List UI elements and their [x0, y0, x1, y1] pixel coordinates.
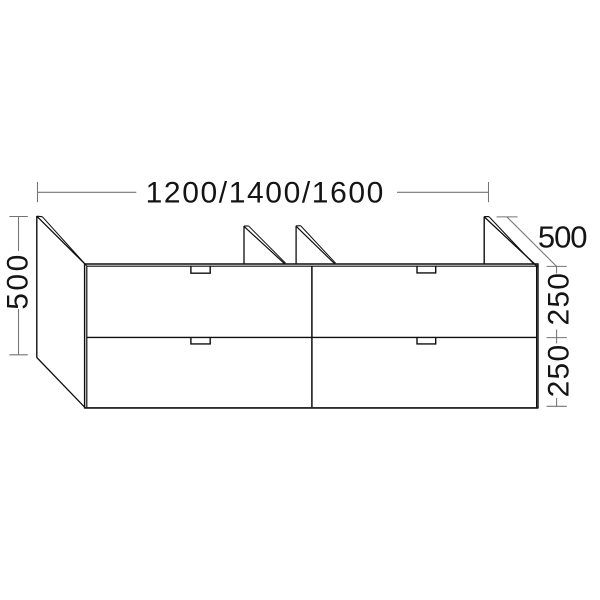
dimension width: left tick: [37, 182, 39, 202]
handle notch drawer bottom-left: [191, 338, 210, 344]
support bracket 1 vertical edge: [243, 226, 245, 264]
support bracket 1 hypotenuse inner: [249, 226, 286, 263]
dimension right 250+250: line segment 2: [556, 330, 558, 344]
svg-text:500: 500: [538, 219, 587, 254]
dimension width: right tick: [488, 182, 490, 202]
svg-text:500: 500: [2, 252, 35, 310]
dimension depth: bottom tick: [547, 265, 567, 267]
drawer column divider: [311, 266, 313, 407]
dimension right 250+250: middle tick: [547, 337, 567, 339]
dimension height left: line upper segment: [18, 217, 20, 251]
dimension right 250+250: bottom tick: [547, 405, 567, 407]
support bracket 2 vertical edge: [295, 226, 297, 264]
dimension height left: line lower segment: [18, 309, 20, 355]
right side panel top edge: [484, 216, 489, 218]
dimension width: line left segment: [38, 191, 137, 193]
handle notch drawer top-left: [191, 266, 210, 273]
left side panel bottom diagonal: [37, 358, 85, 408]
right side panel top outer diagonal: [484, 217, 538, 267]
svg-text:250: 250: [542, 344, 575, 398]
left side panel top outer diagonal: [37, 216, 85, 264]
dimension right 250+250: line segment 3: [556, 398, 558, 406]
handle notch drawer top-right: [417, 266, 436, 273]
carcass inner left line: [86, 266, 88, 407]
left side panel top inner diagonal: [42, 217, 87, 266]
support bracket 1 top edge: [244, 225, 249, 227]
support bracket 2 hypotenuse outer: [296, 226, 335, 264]
carcass inner right line: [536, 266, 538, 407]
carcass inner top line: [87, 265, 537, 267]
dimension height left: bottom tick: [9, 354, 27, 356]
svg-text:250: 250: [542, 272, 575, 326]
right side panel top inner diagonal: [489, 217, 534, 264]
dimension depth: diagonal line: [507, 217, 557, 266]
support bracket 2 top edge: [296, 225, 301, 227]
support bracket 1 hypotenuse outer: [244, 227, 285, 264]
right side panel back edge: [483, 217, 485, 264]
handle notch drawer bottom-right: [417, 338, 436, 344]
carcass bottom edge thickening: [85, 407, 538, 409]
support bracket 2 hypotenuse inner: [301, 226, 336, 263]
dimension height left: top tick: [9, 216, 27, 218]
drawer row divider: [87, 336, 537, 338]
dimension depth: top tick: [497, 216, 518, 218]
dimension right 250+250: line segment 1: [556, 266, 558, 273]
svg-text:1200/1400/1600: 1200/1400/1600: [146, 177, 385, 210]
dimension width: line right segment: [397, 191, 489, 193]
carcass front face outline: [85, 264, 538, 408]
left side panel top edge: [37, 215, 43, 218]
left side panel back edge: [36, 216, 38, 358]
